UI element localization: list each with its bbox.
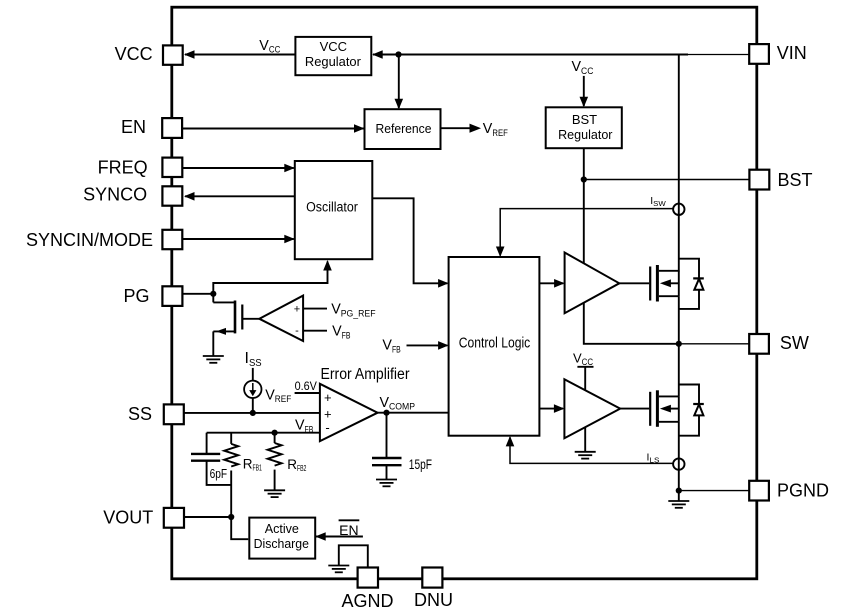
svg-text:DNU: DNU (414, 590, 453, 610)
svg-text:FREQ: FREQ (98, 158, 148, 178)
svg-text:VOUT: VOUT (103, 508, 153, 528)
svg-text:EN: EN (121, 117, 146, 137)
svg-text:0.6V: 0.6V (295, 379, 317, 393)
svg-text:Active: Active (265, 521, 299, 536)
svg-text:VIN: VIN (777, 43, 807, 63)
svg-text:Regulator: Regulator (558, 127, 613, 142)
svg-text:-: - (325, 420, 329, 435)
svg-text:BST: BST (778, 170, 813, 190)
svg-text:-: - (295, 325, 299, 337)
svg-text:SW: SW (780, 333, 809, 353)
svg-text:Reference: Reference (376, 121, 432, 136)
svg-text:PGND: PGND (777, 481, 829, 501)
svg-text:Regulator: Regulator (305, 54, 362, 69)
svg-text:Error Amplifier: Error Amplifier (321, 366, 410, 383)
svg-text:SYNCO: SYNCO (83, 185, 147, 205)
svg-text:SYNCIN/MODE: SYNCIN/MODE (26, 230, 153, 250)
svg-text:Discharge: Discharge (254, 536, 309, 551)
svg-text:+: + (324, 390, 332, 405)
svg-text:+: + (294, 303, 300, 315)
svg-text:BST: BST (572, 112, 597, 127)
svg-text:Control Logic: Control Logic (459, 334, 531, 351)
svg-text:EN: EN (339, 522, 358, 538)
svg-text:VCC: VCC (320, 39, 347, 54)
svg-text:SS: SS (128, 404, 152, 424)
svg-text:PG: PG (123, 286, 149, 306)
svg-text:AGND: AGND (341, 591, 393, 611)
svg-text:6pF: 6pF (210, 467, 228, 481)
svg-text:15pF: 15pF (409, 457, 432, 472)
svg-text:VCC: VCC (115, 44, 153, 64)
svg-text:Oscillator: Oscillator (306, 200, 358, 215)
